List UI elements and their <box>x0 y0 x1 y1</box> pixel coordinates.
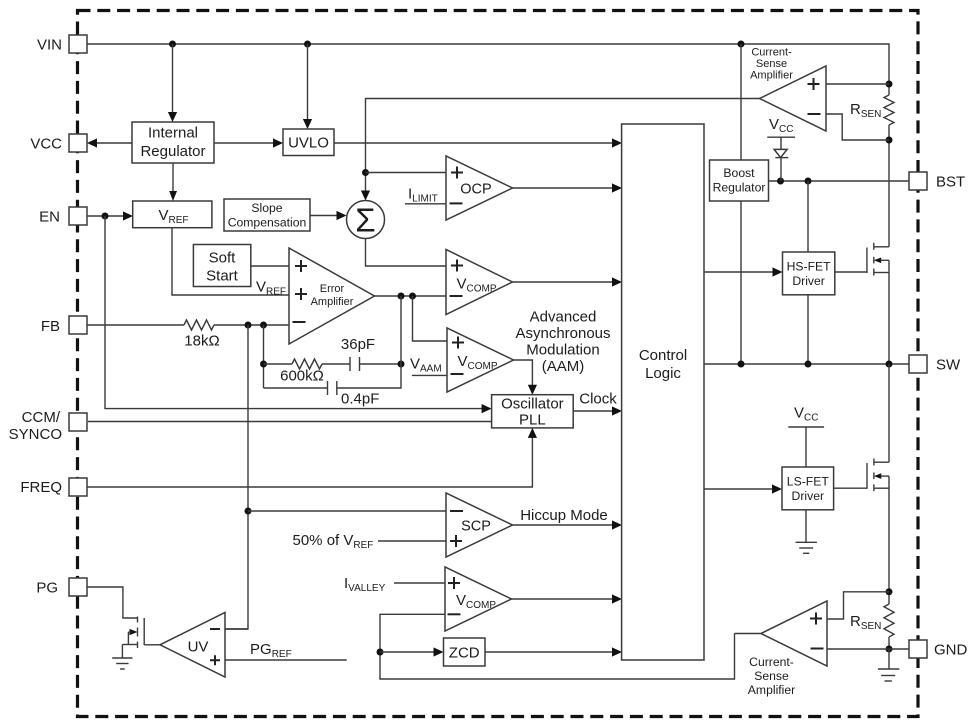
node BST HS-driver junction <box>805 178 812 185</box>
wire EN to VREF <box>87 211 133 220</box>
svg-text:FB: FB <box>41 318 60 335</box>
svg-text:VCC: VCC <box>30 136 62 153</box>
wire EA output to AAM comparator plus <box>413 296 448 341</box>
wire SCP output to Control Logic <box>513 520 623 529</box>
pin GND <box>909 640 968 659</box>
svg-text:GND: GND <box>934 642 968 659</box>
wire Error Amplifier output to VCOMP comparator <box>375 295 447 297</box>
transistor PG-FET <box>122 617 144 649</box>
svg-text:Slope: Slope <box>251 201 282 215</box>
wire Internal Regulator to VREF <box>169 163 177 201</box>
capacitor 0.4pF <box>264 364 402 408</box>
pin VCC <box>30 134 87 153</box>
node OCP branch junction <box>362 169 369 176</box>
block Slope Compensation <box>224 199 310 231</box>
wire to OCP plus input <box>366 172 447 174</box>
wire HS-FET Driver to SW <box>807 295 809 364</box>
wire summer output to VCOMP comparator plus <box>366 239 447 267</box>
wire RSEN bottom to CSA minus <box>826 114 889 140</box>
node VIN-UVLO junction <box>304 41 311 48</box>
wire LS drain to SW <box>888 364 890 462</box>
svg-text:Error: Error <box>320 283 345 295</box>
block Control Logic <box>622 124 704 660</box>
power VCC boost diode <box>767 116 795 181</box>
svg-text:Advanced: Advanced <box>530 309 597 326</box>
label VAAM <box>410 356 447 376</box>
svg-text:SCP: SCP <box>461 519 491 535</box>
wire GND rail <box>827 648 909 650</box>
power VCC LS driver <box>788 405 824 468</box>
node SW-FET junction <box>886 361 893 368</box>
block Oscillator PLL <box>492 395 574 429</box>
node FB junction B <box>260 322 267 329</box>
svg-text:Regulator: Regulator <box>140 143 205 160</box>
pin FB <box>41 316 87 335</box>
svg-text:600kΩ: 600kΩ <box>280 368 324 385</box>
node EA output junction A <box>398 293 405 300</box>
svg-text:Driver: Driver <box>792 274 825 288</box>
svg-text:Driver: Driver <box>792 489 825 503</box>
wire RSEN low to CSA plus <box>827 592 889 619</box>
node compensation output junction <box>398 361 405 368</box>
wire EA output to compensation network <box>400 296 402 364</box>
label Current-Sense Amplifier bottom <box>748 655 795 697</box>
wire VREF to Error Amplifier plus input <box>172 228 289 295</box>
wire 50% VREF to SCP plus input <box>378 540 446 542</box>
op-amp Current-Sense Amplifier bottom <box>761 601 827 666</box>
transistor HS-FET <box>835 243 889 276</box>
pin PG <box>36 578 87 597</box>
wire Internal Regulator to UVLO <box>214 138 283 147</box>
node RSEN top junction <box>886 81 893 88</box>
wire compensation branch down <box>263 325 265 388</box>
wire FB line left segment <box>87 324 184 326</box>
svg-text:PLL: PLL <box>519 412 546 429</box>
wire FB to SCP minus input <box>248 510 446 512</box>
svg-text:Boost: Boost <box>723 166 755 180</box>
svg-text:SW: SW <box>936 357 961 374</box>
wire Control Logic to HS-FET Driver <box>704 267 783 276</box>
wire IVALLEY to valley comparator plus <box>394 582 445 584</box>
wire EN to Oscillator PLL <box>105 216 492 413</box>
svg-text:Modulation: Modulation <box>526 342 599 359</box>
block Internal Regulator <box>132 122 214 163</box>
label ILIMIT <box>405 186 446 205</box>
wire VIN column down to SW node <box>740 44 742 364</box>
op-amp Error Amplifier <box>289 248 375 344</box>
block UVLO <box>283 129 334 156</box>
resistor RSEN low side <box>850 592 894 649</box>
summer sigma <box>347 201 385 239</box>
comparator OCP <box>446 156 513 220</box>
wire RSEN top to CSA plus <box>826 83 889 85</box>
node SW-HS driver junction <box>805 361 812 368</box>
svg-text:Oscillator: Oscillator <box>501 396 564 413</box>
pin EN <box>39 207 87 226</box>
wire current-sense signal to summer and OCP <box>361 99 760 201</box>
pin FREQ <box>20 478 87 496</box>
block LS-FET Driver <box>782 467 834 510</box>
comparator SCP <box>446 493 513 557</box>
svg-text:Start: Start <box>206 268 239 285</box>
wire ZCD output to Control Logic <box>485 647 622 656</box>
svg-text:Regulator: Regulator <box>713 181 766 195</box>
comparator VCOMP valley <box>445 567 512 631</box>
wire BST to HS-FET Driver <box>807 181 809 252</box>
capacitor 36pF <box>322 336 401 371</box>
svg-text:PG: PG <box>36 580 58 597</box>
comparator VCOMP peak <box>446 250 513 315</box>
svg-text:UV: UV <box>188 639 209 656</box>
block VREF <box>133 201 212 228</box>
node compensation junction <box>260 361 267 368</box>
node FB junction A <box>245 322 252 329</box>
ground GND pin <box>878 649 899 681</box>
node ZCD branch junction <box>377 649 384 656</box>
node RSEN low bottom junction <box>886 646 893 653</box>
node EN junction <box>102 213 109 220</box>
wire OCP output to Control Logic <box>513 183 623 192</box>
svg-text:(AAM): (AAM) <box>542 358 585 375</box>
svg-text:EN: EN <box>39 209 60 226</box>
wire CSA bottom output start <box>735 633 762 635</box>
block HS-FET Driver <box>783 252 835 295</box>
svg-text:Current-: Current- <box>751 47 792 59</box>
svg-text:Internal: Internal <box>148 125 198 142</box>
svg-text:Compensation: Compensation <box>228 216 307 230</box>
svg-text:LS-FET: LS-FET <box>787 475 830 489</box>
wire FREQ to Oscillator PLL <box>87 428 537 487</box>
svg-text:Amplifier: Amplifier <box>748 683 795 697</box>
svg-text:Logic: Logic <box>645 365 681 382</box>
wire LS source to RSEN low <box>888 476 890 592</box>
wire SW rail <box>704 363 909 365</box>
block Boost Regulator <box>710 160 769 201</box>
svg-text:OCP: OCP <box>460 182 491 198</box>
block Soft Start <box>193 245 250 287</box>
svg-text:CCM/: CCM/ <box>22 409 61 426</box>
svg-text:Asynchronous: Asynchronous <box>515 325 610 342</box>
svg-text:18kΩ: 18kΩ <box>184 333 219 350</box>
resistor 18k <box>184 320 214 330</box>
resistor RSEN high side <box>850 84 894 140</box>
wire VIN to Internal Regulator <box>168 44 177 122</box>
wire VIN rail <box>87 44 889 84</box>
svg-text:Σ: Σ <box>355 202 375 239</box>
node SW-VIN column junction <box>738 361 745 368</box>
node RSEN bottom junction <box>886 137 893 144</box>
wire HS drain to RSEN <box>888 140 890 247</box>
node VIN-IR junction <box>169 41 176 48</box>
svg-text:Sense: Sense <box>756 58 787 70</box>
pin VIN <box>37 35 87 54</box>
wire to ZCD input <box>380 647 444 656</box>
wire valley comparator output to Control Logic <box>512 594 623 603</box>
svg-text:Amplifier: Amplifier <box>750 70 793 82</box>
wire Slope Compensation to summer <box>310 211 347 220</box>
label Current-Sense Amplifier top <box>750 47 793 82</box>
comparator VCOMP AAM <box>447 328 514 392</box>
wire FB sense column to UV comparator <box>225 325 248 629</box>
ground PG-FET <box>112 645 132 670</box>
pin BST <box>909 172 965 191</box>
wire BST rail <box>769 180 910 182</box>
wire PG pin to PG-FET drain <box>87 587 138 618</box>
svg-text:Sense: Sense <box>754 669 789 683</box>
wire Internal Regulator to VCC pin <box>87 138 132 147</box>
wire VIN to UVLO <box>303 44 312 129</box>
svg-text:BST: BST <box>936 174 965 191</box>
wire Soft Start to Error Amplifier top plus input <box>251 265 289 267</box>
wire HS source to SW <box>888 260 890 364</box>
wire VCOMP output to Control Logic <box>513 277 623 286</box>
wire Oscillator PLL clock to Control Logic <box>573 406 622 415</box>
transistor LS-FET <box>834 459 889 492</box>
op-amp Current-Sense Amplifier top <box>760 66 827 131</box>
resistor 600k <box>264 359 324 385</box>
ground LS-FET Driver <box>796 510 817 554</box>
wire UVLO to Control Logic <box>334 138 622 147</box>
svg-text:HS-FET: HS-FET <box>787 260 832 274</box>
pin SW <box>909 355 961 374</box>
svg-text:Hiccup Mode: Hiccup Mode <box>520 507 608 524</box>
svg-text:Clock: Clock <box>579 391 617 408</box>
wire current-sense return to valley comparator minus <box>380 614 735 679</box>
svg-text:FREQ: FREQ <box>20 479 62 496</box>
node RSEN low top junction <box>886 588 893 595</box>
node VIN-SW column junction <box>738 41 745 48</box>
label Advanced Asynchronous Modulation (AAM) <box>515 309 610 376</box>
svg-text:UVLO: UVLO <box>288 135 329 152</box>
svg-text:0.4pF: 0.4pF <box>341 391 379 408</box>
wire CCM/SYNCO to Oscillator PLL <box>88 421 492 423</box>
svg-text:Amplifier: Amplifier <box>311 296 354 308</box>
svg-text:Soft: Soft <box>209 250 237 267</box>
svg-text:Current-: Current- <box>749 655 794 669</box>
svg-text:VIN: VIN <box>37 37 62 54</box>
wire PGREF to UV plus input <box>225 659 347 661</box>
pin CCM/SYNCO <box>9 409 87 443</box>
block ZCD <box>444 638 486 666</box>
wire Control Logic to LS-FET Driver <box>704 484 782 493</box>
svg-text:36pF: 36pF <box>341 336 375 353</box>
wire FB line right segment to Error Amplifier minus <box>214 324 289 326</box>
comparator UV <box>144 613 225 678</box>
svg-text:ZCD: ZCD <box>449 645 480 662</box>
node FB-SCP junction <box>245 508 252 515</box>
wire UV minus input <box>225 628 248 630</box>
wire AAM output to Oscillator PLL <box>514 360 538 395</box>
svg-text:Control: Control <box>639 347 687 364</box>
node BST diode junction <box>777 178 784 185</box>
svg-text:SYNCO: SYNCO <box>9 426 62 443</box>
node EA output junction B <box>409 293 416 300</box>
